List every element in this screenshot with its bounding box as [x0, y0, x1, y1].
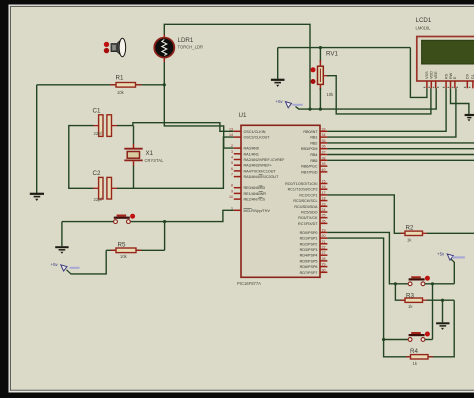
svg-text:RD6/PSP6: RD6/PSP6: [300, 265, 318, 269]
wire: RD1 to button2/R4: [327, 238, 408, 339]
wire: VSS to ground line: [410, 48, 427, 98]
svg-text:33: 33: [322, 127, 326, 131]
svg-text:+5v: +5v: [51, 262, 59, 267]
svg-text:22pf: 22pf: [94, 131, 103, 136]
svg-text:RA5/AN4/SS/C2OUT: RA5/AN4/SS/C2OUT: [244, 175, 280, 179]
svg-text:7: 7: [231, 173, 233, 177]
wire: RB1 to LCD E: [327, 88, 456, 137]
U1 active-low overlines: [244, 174, 264, 208]
svg-text:LDR1: LDR1: [178, 37, 194, 44]
svg-text:RC4/SDI/SDA: RC4/SDI/SDA: [294, 205, 318, 209]
svg-text:RD0/PSP0: RD0/PSP0: [300, 231, 318, 235]
node: RV1 top junction: [319, 46, 322, 49]
wire: node to R3: [395, 284, 405, 300]
wire: R3 right down to R4 right: [428, 300, 454, 357]
svg-text:R5: R5: [118, 242, 126, 249]
svg-text:U1: U1: [239, 112, 247, 119]
svg-text:RE0/AN5/RD: RE0/AN5/RD: [244, 186, 266, 190]
svg-text:18: 18: [322, 197, 326, 201]
frame: bevel bottom highlight: [9, 391, 474, 393]
svg-text:14: 14: [229, 133, 233, 137]
svg-text:3: 3: [231, 150, 233, 154]
node: button1 right junction: [431, 282, 434, 285]
svg-text:23: 23: [322, 202, 326, 206]
wire: RC2/CCP1 to R2: [327, 195, 405, 233]
push button (lower right): [408, 332, 432, 342]
svg-text:RB4: RB4: [310, 153, 317, 157]
svg-text:RD5/PSP5: RD5/PSP5: [300, 259, 318, 263]
U1 right pin numbers: [322, 127, 326, 272]
svg-text:19: 19: [322, 228, 326, 232]
frame: bevel shadow left: [9, 6, 11, 391]
svg-text:17: 17: [322, 191, 326, 195]
wire: RB2 to right edge: [327, 142, 474, 144]
frame: bevel highlight left: [8, 5, 10, 393]
svg-text:24: 24: [322, 208, 326, 212]
svg-text:10k: 10k: [120, 254, 128, 259]
wire: LDR bottom to RA0: [164, 62, 234, 148]
power +5v terminal (right): [437, 252, 465, 284]
svg-text:LM016L: LM016L: [416, 26, 432, 31]
svg-text:RE2/AN7/CS: RE2/AN7/CS: [244, 198, 266, 202]
push button (bottom left): [62, 214, 165, 224]
svg-text:RB0/INT: RB0/INT: [303, 130, 318, 134]
wire: junction to MCLR: [165, 210, 234, 221]
svg-text:RB2: RB2: [310, 141, 317, 145]
wire: C1 to OSC1: [117, 123, 234, 132]
LDR LDR1: [154, 35, 203, 63]
svg-text:RB3/PGM: RB3/PGM: [301, 147, 318, 151]
frame: left black bar: [0, 0, 9, 398]
svg-text:RC6/TX/CK: RC6/TX/CK: [298, 216, 318, 220]
svg-text:R3: R3: [406, 293, 414, 300]
wire: RB5 to right edge: [327, 159, 474, 161]
svg-text:8: 8: [231, 184, 233, 188]
svg-text:RS: RS: [444, 73, 448, 79]
svg-text:20: 20: [322, 234, 326, 238]
svg-text:21: 21: [322, 240, 326, 244]
wire: RV1 bottom to +5v rail: [319, 88, 321, 109]
svg-text:35: 35: [322, 139, 326, 143]
speaker icon: [104, 38, 126, 56]
wire: LDR top rail to +5v node: [164, 24, 310, 109]
ground (top, RV1/VSS net): [271, 48, 285, 87]
svg-text:RC3/SCK/SCL: RC3/SCK/SCL: [293, 199, 317, 203]
svg-text:2: 2: [231, 144, 233, 148]
frame: top black bar: [0, 0, 474, 5]
node: +5v rail junction: [308, 108, 311, 111]
wire: RD0 to button node: [327, 232, 408, 283]
svg-text:38: 38: [322, 156, 326, 160]
svg-text:39: 39: [322, 162, 326, 166]
svg-text:RC5/SDO: RC5/SDO: [301, 211, 318, 215]
svg-text:RD7/PSP7: RD7/PSP7: [300, 271, 318, 275]
node: RV1 bottom junction: [319, 108, 322, 111]
wire: ground line to VSS corner: [278, 47, 411, 49]
U1 left pin names: [244, 130, 286, 213]
ground (R3 right): [436, 300, 449, 330]
power +5v terminal (middle): [276, 99, 311, 109]
wire: node down to R4: [384, 340, 411, 357]
svg-text:10: 10: [229, 195, 233, 199]
wire: RW to ground: [451, 88, 469, 114]
resistor R2: [401, 225, 474, 243]
node: button/R5 junction: [163, 220, 166, 223]
svg-text:34: 34: [322, 133, 326, 137]
svg-text:RC1/T1OSI/CCP2: RC1/T1OSI/CCP2: [288, 188, 318, 192]
svg-text:TORCH_LDR: TORCH_LDR: [178, 45, 204, 50]
U1 right pin names: [285, 130, 318, 275]
svg-text:RA3/AN3/VREF+: RA3/AN3/VREF+: [244, 164, 272, 168]
svg-text:D0: D0: [466, 74, 470, 79]
svg-text:4: 4: [231, 156, 233, 160]
svg-text:25: 25: [322, 214, 326, 218]
resistor R3: [401, 293, 455, 310]
ground (R1 left): [30, 85, 44, 201]
svg-text:15: 15: [322, 180, 326, 184]
svg-text:36: 36: [322, 145, 326, 149]
wire: RB0 to LCD RS: [327, 88, 446, 131]
wire: RB3 to right edge: [327, 148, 474, 150]
svg-text:R1: R1: [116, 75, 124, 82]
node: RD1/button2/R4 junction: [382, 338, 385, 341]
resistor R5: [106, 222, 164, 259]
svg-text:1: 1: [231, 206, 233, 210]
LCD1 LM016L: [416, 17, 474, 81]
svg-text:LCD1: LCD1: [416, 17, 432, 24]
svg-text:6: 6: [231, 167, 233, 171]
svg-text:PIC16F877A: PIC16F877A: [237, 281, 261, 286]
U1 right pin stubs: [320, 131, 327, 272]
svg-text:5: 5: [231, 161, 233, 165]
svg-text:RD2/PSP2: RD2/PSP2: [300, 242, 318, 246]
svg-text:RD1/PSP1: RD1/PSP1: [300, 237, 318, 241]
svg-text:22pf: 22pf: [94, 197, 103, 202]
svg-text:VDD: VDD: [430, 71, 434, 79]
svg-text:26: 26: [322, 219, 326, 223]
capacitor C1: [93, 108, 118, 137]
node: RD0/R3/button junction: [394, 282, 397, 285]
frame: bottom black bar: [0, 393, 474, 398]
svg-text:RA0/AN0: RA0/AN0: [244, 147, 259, 151]
svg-text:RB5: RB5: [310, 159, 317, 163]
svg-text:RB6/PGC: RB6/PGC: [301, 165, 318, 169]
svg-text:OSC2/CLKOUT: OSC2/CLKOUT: [244, 136, 271, 140]
LCD pin stubs: [427, 81, 473, 88]
resistor R1: [37, 75, 165, 96]
wire: RB4 to right edge: [327, 154, 474, 156]
svg-text:30: 30: [322, 268, 326, 272]
wire: C1/C2 left join: [69, 126, 94, 189]
svg-text:C2: C2: [93, 170, 101, 177]
wire: +5v rail to LCD VEE: [310, 88, 436, 109]
svg-text:CRYSTAL: CRYSTAL: [145, 158, 165, 163]
svg-text:37: 37: [322, 151, 326, 155]
crystal X1: [124, 126, 164, 189]
svg-text:R2: R2: [406, 225, 414, 232]
svg-text:+5v: +5v: [276, 99, 284, 104]
frame: bevel highlight top: [9, 4, 474, 6]
svg-text:28: 28: [322, 257, 326, 261]
svg-text:RE1/AN6/WR: RE1/AN6/WR: [244, 192, 267, 196]
svg-text:RA1/AN1: RA1/AN1: [244, 152, 259, 156]
svg-text:RV1: RV1: [326, 51, 338, 58]
push button (upper right): [408, 276, 454, 286]
wire: button1 right to button2 right: [432, 284, 434, 340]
svg-text:RC2/CCP1: RC2/CCP1: [299, 193, 317, 197]
frame: bevel shadow top: [10, 5, 474, 7]
svg-text:MCLR/Vpp/THV: MCLR/Vpp/THV: [244, 209, 271, 213]
svg-text:16: 16: [322, 185, 326, 189]
svg-text:29: 29: [322, 263, 326, 267]
node: R3 right / ground junction: [441, 299, 444, 302]
svg-text:13: 13: [229, 127, 233, 131]
svg-text:+5v: +5v: [437, 252, 445, 257]
svg-text:RA2/AN2/VREF-/CVREF: RA2/AN2/VREF-/CVREF: [244, 158, 286, 162]
node A: LDR/R1 junction: [163, 83, 166, 86]
ground (button bottom left): [55, 222, 68, 254]
svg-text:RB1: RB1: [310, 136, 317, 140]
svg-text:RD4/PSP4: RD4/PSP4: [300, 254, 318, 258]
svg-text:RD3/PSP3: RD3/PSP3: [300, 248, 318, 252]
svg-text:RW: RW: [449, 72, 453, 79]
svg-text:RC7/RX/DT: RC7/RX/DT: [298, 222, 318, 226]
svg-text:10k: 10k: [327, 92, 335, 97]
svg-text:40: 40: [322, 168, 326, 172]
power +5v terminal (bottom left): [51, 250, 107, 274]
capacitor C2: [93, 170, 118, 202]
svg-text:9: 9: [231, 189, 233, 193]
op-amp U1 PIC16F877A body: [237, 112, 320, 286]
svg-text:RB7/PGD: RB7/PGD: [301, 170, 318, 174]
U1 left pin stubs: [234, 131, 241, 210]
svg-text:RC0/T1OSO/T1CKI: RC0/T1OSO/T1CKI: [285, 182, 317, 186]
potentiometer RV1: [311, 48, 339, 97]
LCD pin number ticks: [424, 86, 471, 88]
wire: RV1 wiper to LCD VDD: [327, 76, 431, 114]
svg-text:VSS: VSS: [425, 71, 429, 79]
ground (LCD RW): [465, 115, 474, 121]
resistor R4: [406, 348, 433, 366]
wire: C2 to OSC2: [117, 137, 234, 188]
frame: bevel bottom shadow: [10, 389, 474, 391]
svg-text:C1: C1: [93, 108, 101, 115]
svg-text:R4: R4: [410, 348, 418, 355]
svg-text:27: 27: [322, 251, 326, 255]
U1 left pin numbers: [229, 127, 233, 210]
svg-text:RA4/T0CKI/C1OUT: RA4/T0CKI/C1OUT: [244, 169, 277, 173]
svg-text:OSC1/CLKIN: OSC1/CLKIN: [244, 130, 266, 134]
svg-text:10k: 10k: [117, 90, 125, 95]
svg-text:VEE: VEE: [434, 71, 438, 79]
svg-text:X1: X1: [146, 150, 154, 157]
svg-text:22: 22: [322, 246, 326, 250]
